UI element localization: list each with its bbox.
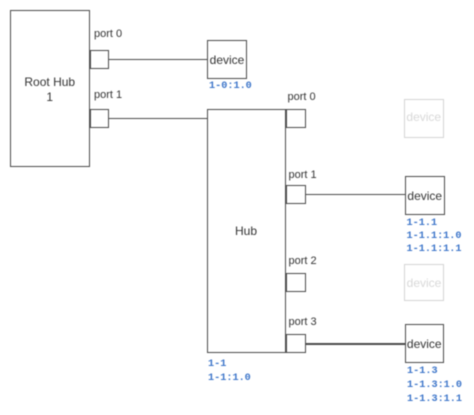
hub port 3 label: [289, 316, 317, 329]
Root Hub 1 box: [10, 10, 90, 167]
hub port 0 box: [286, 109, 306, 129]
hub port 1 label: [289, 169, 317, 182]
labels 1-1.1 / 1-1.1:1.0 / 1-1.1:1.1: [407, 218, 462, 257]
hub labels 1-1 / 1-1:1.0: [208, 358, 251, 384]
ghost device (unconnected, hub port 2): [404, 264, 444, 301]
device 1-0 box: [207, 40, 247, 79]
ghost device (unconnected, hub port 0): [404, 99, 445, 139]
device 1-1.1 box: [405, 176, 445, 215]
hub port 0 label: [288, 91, 316, 104]
root hub port 1 label: [94, 89, 122, 102]
labels 1-1.3 / 1-1.3:1.0 / 1-1.3:1.1: [407, 365, 462, 408]
root hub port 0 label: [94, 28, 122, 41]
root hub port 0 box: [90, 50, 110, 70]
hub port 2 box: [286, 273, 306, 293]
hub port 3 box: [286, 334, 306, 354]
hub port 2 label: [289, 255, 317, 268]
hub port 1 box: [286, 185, 306, 205]
label 1-0:1.0: [209, 81, 252, 94]
wire hub port1 to device 1-1.1: [306, 194, 406, 196]
wire root port1 to hub: [108, 118, 207, 120]
device 1-1.3 box: [405, 324, 445, 363]
root hub port 1 box: [90, 109, 110, 129]
Hub box: [207, 109, 286, 354]
wire root port0 to device 1-0: [108, 59, 207, 61]
wire hub port3 to device 1-1.3: [306, 343, 406, 345]
